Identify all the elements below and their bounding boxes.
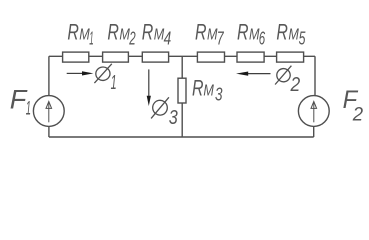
svg-text:2: 2: [129, 28, 136, 49]
svg-text:M: M: [203, 83, 214, 100]
svg-text:R: R: [67, 20, 79, 45]
svg-text:2: 2: [290, 74, 301, 96]
svg-text:R: R: [192, 76, 204, 101]
svg-text:4: 4: [164, 28, 172, 49]
svg-text:R: R: [107, 20, 119, 45]
svg-text:6: 6: [259, 28, 266, 49]
svg-text:R: R: [276, 20, 288, 45]
svg-text:3: 3: [215, 84, 223, 105]
svg-text:7: 7: [217, 28, 224, 49]
svg-text:2: 2: [352, 104, 363, 126]
svg-text:3: 3: [169, 107, 178, 129]
svg-text:R: R: [237, 20, 249, 45]
svg-text:5: 5: [299, 28, 306, 49]
svg-text:1: 1: [89, 28, 93, 49]
svg-text:1: 1: [111, 72, 117, 94]
svg-text:R: R: [195, 20, 207, 45]
svg-text:1: 1: [26, 99, 31, 120]
svg-text:R: R: [142, 20, 154, 45]
